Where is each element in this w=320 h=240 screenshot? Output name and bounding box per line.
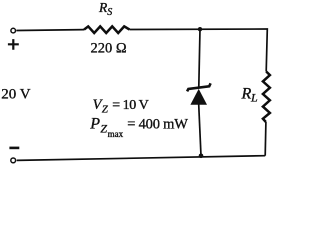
svg-text:Z: Z [102,104,109,116]
svg-text:max: max [108,129,124,139]
svg-text:L: L [250,91,258,105]
svg-text:Z: Z [100,122,107,136]
svg-text:R: R [241,86,252,103]
svg-text:= 10 V: = 10 V [112,98,148,113]
svg-text:20 V: 20 V [1,87,30,103]
svg-text:S: S [107,7,112,18]
svg-text:= 400 mW: = 400 mW [127,117,188,133]
svg-text:P: P [89,116,100,133]
svg-text:220 Ω: 220 Ω [91,40,127,56]
